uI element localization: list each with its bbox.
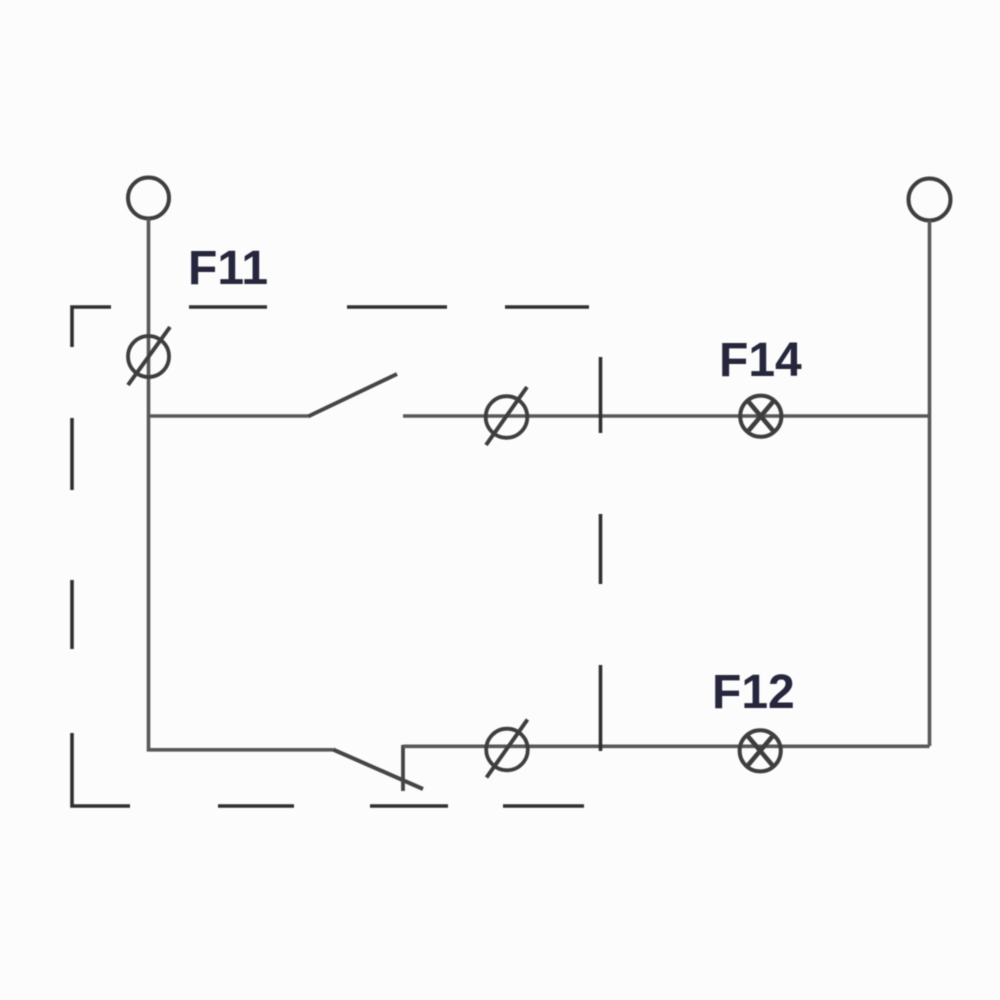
actuator symbol on upper branch [486,387,528,445]
dashed enclosure left edge dash 3 [70,580,74,649]
wire right vertical [928,221,932,747]
mechanical actuator symbol on left wire [128,327,170,385]
switch blade NC contact lower [333,750,423,790]
dashed enclosure top-left corner [72,307,111,347]
dashed enclosure bottom-left corner [72,733,130,806]
dashed divider vertical dash 1 [599,357,603,433]
lamp F14 [740,396,781,437]
lamp F12 [740,730,781,771]
dashed divider vertical dash 2 [599,514,603,584]
svg-text:F11: F11 [188,242,268,295]
dashed enclosure top edge dash 4 [505,305,589,309]
dashed enclosure bottom edge dash 3 [370,804,448,808]
terminal circle right [909,179,951,221]
svg-text:F14: F14 [719,334,802,387]
wire lower branch right segment [403,744,930,748]
dashed divider vertical dash 3 [599,665,603,751]
terminal circle left [128,178,169,219]
wire upper branch right segment [403,414,930,418]
dashed enclosure bottom edge dash 4 [503,804,584,808]
dashed enclosure bottom edge dash 2 [218,804,294,808]
svg-text:F12: F12 [712,666,795,719]
dashed enclosure top edge dash 2 [189,305,267,309]
switch blade NO contact upper [308,374,397,417]
dashed enclosure left edge dash 2 [70,418,74,490]
dashed enclosure top edge dash 3 [347,305,447,309]
wire lower branch left segment [147,748,333,752]
actuator symbol on lower branch [486,720,528,778]
NC contact stop stub [401,745,405,791]
wire left vertical [147,219,151,749]
wire upper branch left segment [149,414,309,418]
